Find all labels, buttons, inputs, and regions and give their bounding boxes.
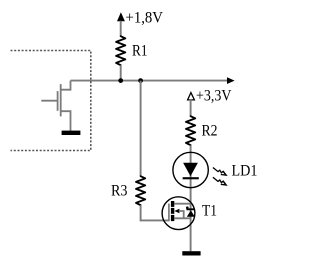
dashed enclosure box (11, 51, 91, 151)
resistor R1 (116, 36, 147, 65)
svg-text:+3,3V: +3,3V (196, 88, 232, 105)
ground (62, 131, 81, 135)
svg-text:R2: R2 (202, 123, 218, 140)
wire (190, 100, 192, 117)
ground (182, 251, 200, 255)
svg-text:+1,8V: +1,8V (126, 10, 164, 27)
node junction (138, 78, 143, 83)
power +3,3V (188, 88, 232, 105)
LED LD1 (173, 152, 258, 187)
resistor R3 (111, 176, 145, 205)
node junction (118, 78, 123, 83)
wire (120, 21, 122, 37)
transistor M1 (left MOSFET) (41, 81, 70, 131)
power +1,8V (117, 10, 164, 27)
svg-text:T1: T1 (202, 203, 217, 220)
wire (141, 205, 169, 220)
svg-text:R1: R1 (132, 43, 148, 60)
wire (120, 65, 122, 80)
wire (71, 80, 229, 82)
output arrow (227, 77, 235, 84)
svg-text:R3: R3 (111, 182, 128, 199)
wire (190, 145, 192, 251)
resistor R2 (186, 116, 218, 145)
svg-text:LD1: LD1 (232, 163, 258, 180)
transistor T1 (162, 197, 217, 230)
wire (140, 81, 142, 177)
